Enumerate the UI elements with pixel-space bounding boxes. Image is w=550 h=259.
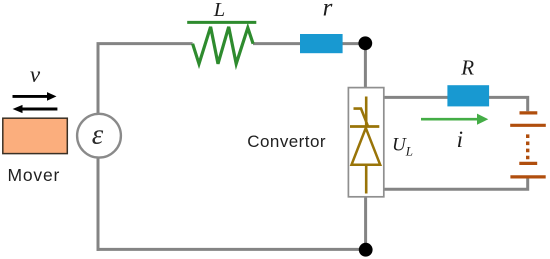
convertor box <box>348 88 383 197</box>
battery top short bar <box>520 111 538 114</box>
mover rectangle <box>3 118 68 153</box>
wire left vertical lower <box>97 158 100 251</box>
wire bottom horizontal <box>97 248 366 251</box>
battery bottom short bar <box>519 162 537 165</box>
wire top right (box to battery) <box>384 97 528 111</box>
svg-text:R: R <box>460 56 474 80</box>
wire convertor box bottom to bottom node <box>364 197 367 250</box>
svg-text:Convertor: Convertor <box>247 132 326 151</box>
current arrow i <box>421 118 478 121</box>
thyristor anode line <box>365 97 368 127</box>
resistor R (blue rect) <box>447 85 489 106</box>
thyristor cathode bar <box>350 125 379 128</box>
wire top middle (inductor to node) <box>253 42 366 45</box>
svg-text:ε: ε <box>92 119 104 151</box>
svg-text:i: i <box>457 127 463 152</box>
inductor L (green zigzag) <box>193 27 254 64</box>
battery dotted middle <box>526 134 529 159</box>
svg-text:L: L <box>213 0 225 21</box>
wire bottom right (battery to box) <box>384 178 528 189</box>
thyristor gate <box>354 109 369 127</box>
resistor r (blue rect) <box>300 34 343 53</box>
wire node to convertor box top <box>364 44 367 88</box>
thyristor cathode line <box>365 165 368 193</box>
thyristor triangle <box>352 128 381 165</box>
emf source circle <box>77 114 121 158</box>
node bottom (junction dot) <box>359 243 373 257</box>
wire top-left horizontal and left vertical <box>98 44 193 115</box>
svg-text:r: r <box>323 0 333 22</box>
svg-text:Mover: Mover <box>8 165 61 185</box>
inductor core bar <box>187 21 256 24</box>
battery top long bar <box>510 124 546 127</box>
node top (junction dot) <box>358 36 372 50</box>
velocity arrow right <box>13 95 48 98</box>
battery bottom long bar <box>510 175 545 178</box>
svg-text:v: v <box>30 62 41 87</box>
velocity arrow left <box>22 108 57 111</box>
